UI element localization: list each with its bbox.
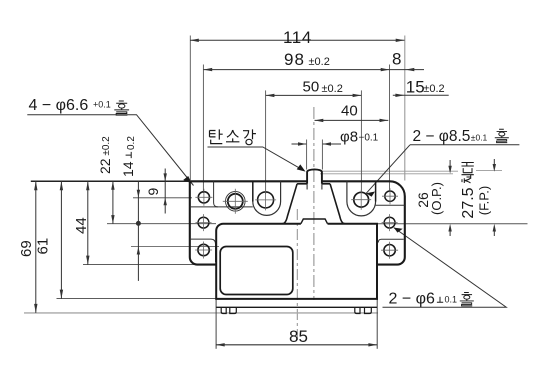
pocket hole L1 xyxy=(214,181,218,207)
hole phi8.5 xyxy=(351,190,371,210)
plate face step line right xyxy=(376,204,405,206)
dimension 22 xyxy=(111,181,114,223)
plunger stem hidden xyxy=(307,184,322,190)
svg-text:69: 69 xyxy=(18,240,35,257)
svg-text:40: 40 xyxy=(341,103,358,120)
svg-text:2 − φ8.5: 2 − φ8.5 xyxy=(413,128,471,145)
hole row2 left xyxy=(196,214,212,231)
extension line FP dome top xyxy=(320,170,502,173)
extension line hole col 203 up xyxy=(202,65,204,194)
pocket BL tab xyxy=(190,239,216,262)
svg-text:±0.2: ±0.2 xyxy=(322,83,343,95)
svg-text:8: 8 xyxy=(392,49,401,68)
svg-text:98: 98 xyxy=(284,50,305,69)
dimension 85 xyxy=(216,343,377,346)
svg-text:0.1: 0.1 xyxy=(445,295,458,305)
svg-text:114: 114 xyxy=(283,28,312,47)
hole row2 right xyxy=(382,214,398,231)
cover plate xyxy=(220,247,293,295)
svg-text:4 − φ6.6: 4 − φ6.6 xyxy=(29,97,89,114)
svg-text:9: 9 xyxy=(145,188,161,196)
extension line hole row1 left xyxy=(133,197,192,199)
pocket BR tab xyxy=(378,239,403,242)
svg-text:φ8: φ8 xyxy=(340,129,358,146)
dimension phi8 xyxy=(292,142,342,145)
svg-text:±0.1: ±0.1 xyxy=(471,133,488,143)
plate outline xyxy=(190,181,405,264)
U pocket phi8.5 xyxy=(347,181,376,216)
svg-text:85: 85 xyxy=(289,327,308,346)
svg-text:44: 44 xyxy=(73,217,90,234)
svg-text:14: 14 xyxy=(120,161,136,177)
dimension 27.5 max FP xyxy=(493,159,496,236)
extension line 85 right xyxy=(376,299,378,349)
extension line cover top left xyxy=(131,246,219,248)
extension line 85 left xyxy=(215,299,217,349)
leader 4-phi6.6 xyxy=(27,115,193,186)
body outline xyxy=(216,224,377,299)
svg-text:61: 61 xyxy=(35,238,52,255)
dimension 9 xyxy=(164,169,167,214)
dimension 114 xyxy=(190,39,405,42)
svg-text:27.5: 27.5 xyxy=(460,187,477,218)
dimension 61 xyxy=(60,181,63,298)
hole row3 right xyxy=(381,242,398,259)
svg-text:−0.1: −0.1 xyxy=(359,133,379,144)
foot 3 xyxy=(355,307,360,313)
raised band left edge xyxy=(252,181,254,201)
svg-text:±0.2: ±0.2 xyxy=(309,56,330,68)
centerline body vertical xyxy=(296,209,298,341)
hangul dae (max) xyxy=(462,163,474,173)
hole row1 third xyxy=(255,189,276,210)
hole R1 xyxy=(382,188,398,204)
dimension 26 OP xyxy=(448,160,451,236)
extension line body top left xyxy=(107,223,216,225)
extension line plate right up xyxy=(404,36,406,181)
conduit hole xyxy=(223,189,248,214)
trapezoid boss xyxy=(283,184,345,224)
foot 4 xyxy=(365,307,372,313)
svg-text:(O.P.): (O.P.) xyxy=(429,182,444,215)
dimension 69 xyxy=(34,181,37,313)
extension line hole col 361 up xyxy=(360,90,362,192)
notch plunger guide xyxy=(301,219,328,224)
plate face step line left xyxy=(190,206,253,208)
dimension 15 xyxy=(393,94,449,97)
foot 1 xyxy=(221,307,226,313)
extension line plate top left xyxy=(31,180,190,182)
extension line phi8 right xyxy=(321,140,323,170)
hole row3 left xyxy=(195,242,212,259)
dimension 44 xyxy=(86,181,89,264)
extension line plate bottom left xyxy=(83,264,198,266)
extension line hole col 266 up xyxy=(265,90,267,194)
hole L1 xyxy=(195,189,212,206)
body flange line xyxy=(216,306,377,308)
centerline plunger vertical xyxy=(313,107,315,300)
leader tansogang xyxy=(208,147,304,171)
plunger xyxy=(307,169,322,183)
svg-text:50: 50 xyxy=(303,79,320,96)
foot 2 xyxy=(230,307,237,313)
svg-text:0.2: 0.2 xyxy=(126,136,137,150)
svg-text:±0.2: ±0.2 xyxy=(423,83,444,95)
svg-text:+0.1: +0.1 xyxy=(93,100,111,110)
extension line body bottom left xyxy=(57,298,217,300)
extension line hole col 389 up xyxy=(389,65,391,192)
callout tansogang (carbon steel) xyxy=(210,129,256,144)
ground surface line xyxy=(24,312,378,314)
svg-text:15: 15 xyxy=(406,78,425,97)
U pocket hole3 xyxy=(253,181,281,215)
dimension 50 xyxy=(266,94,362,97)
hangul choe (max) xyxy=(462,175,474,183)
extension line phi8 left xyxy=(306,140,308,170)
dimension 98 xyxy=(203,68,424,71)
extension line OP dome xyxy=(320,173,453,175)
extension line plate left up xyxy=(189,36,191,181)
svg-text:(F.P.): (F.P.) xyxy=(477,186,492,215)
extension line body top right xyxy=(377,223,528,225)
svg-text:2 − φ6: 2 − φ6 xyxy=(389,291,436,308)
dimension 14 xyxy=(136,181,140,281)
dimension 40 xyxy=(315,119,389,122)
raised band right edge xyxy=(375,181,377,201)
